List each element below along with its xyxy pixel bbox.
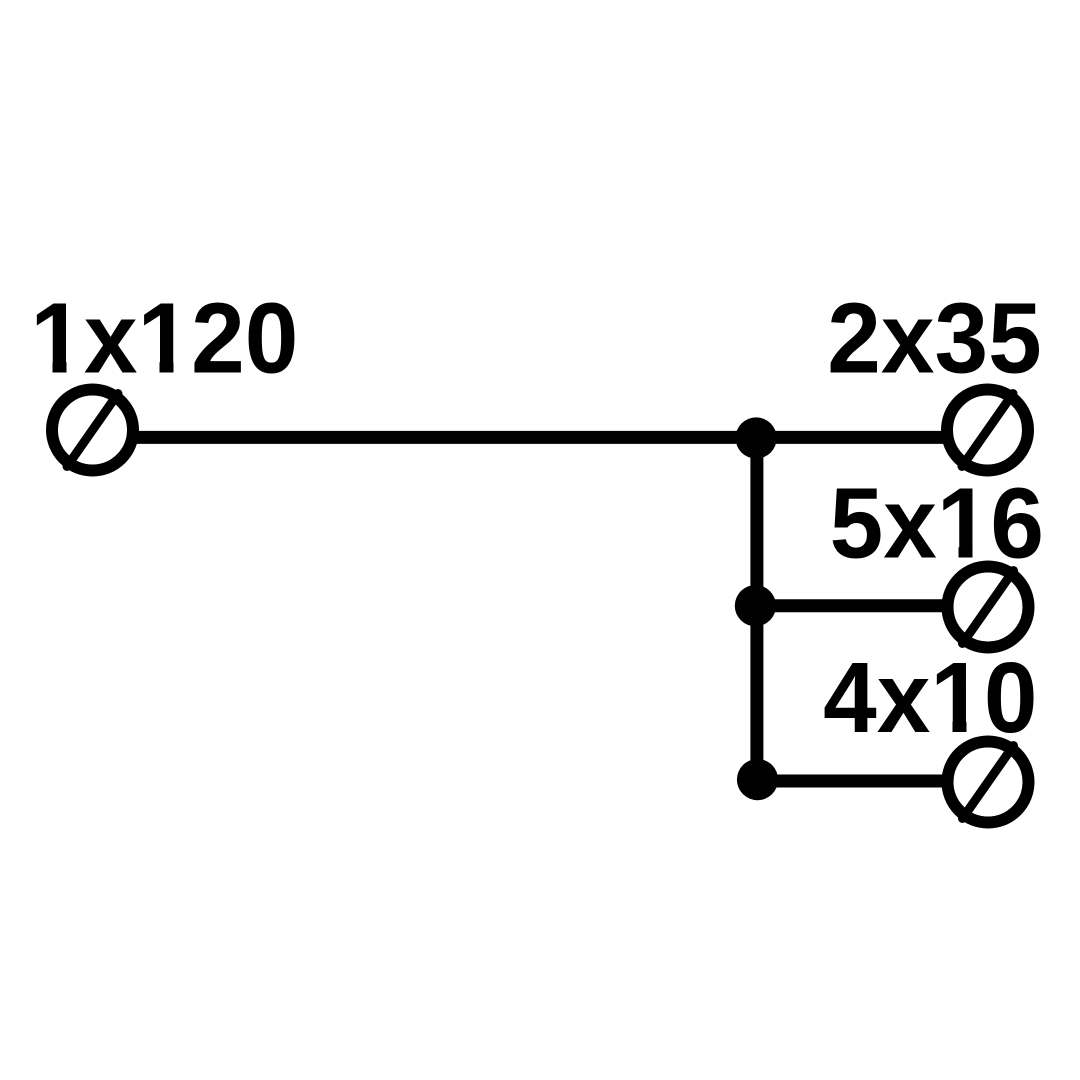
svg-text:5x16: 5x16 (830, 467, 1044, 579)
svg-text:2x35: 2x35 (827, 282, 1041, 394)
svg-text:1x120: 1x120 (30, 282, 298, 394)
svg-text:4x10: 4x10 (823, 641, 1037, 753)
